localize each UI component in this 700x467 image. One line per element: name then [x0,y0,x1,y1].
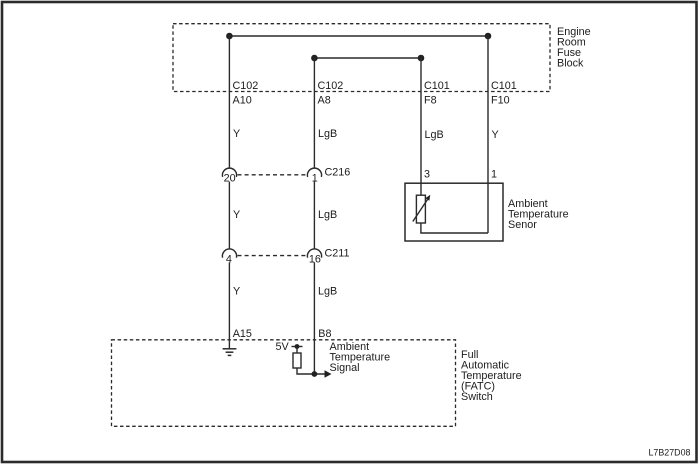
node junction dot right bus2 [418,55,425,62]
svg-text:Y: Y [233,286,240,298]
diagram code L7B27D08 [649,447,691,457]
connector C216 dashed link [238,174,308,176]
wire 1 lower segment [228,262,230,348]
svg-text:A15: A15 [233,328,252,340]
pin label 1 [491,169,497,181]
ground (A15) [223,349,237,356]
node junction dot right bus1 [485,33,492,40]
svg-text:C101: C101 [424,80,450,92]
wire 3 segment (C101 F8) [420,58,422,195]
pin number 16 [309,253,321,265]
svg-text:3: 3 [424,169,430,181]
signal arrow [325,370,332,377]
wire 5V to resistor [296,347,298,354]
label Ambient Temperature Senor [508,198,569,231]
wire color label LgB (wire3) [425,129,444,141]
svg-text:A10: A10 [233,95,252,107]
svg-text:C102: C102 [318,80,344,92]
svg-text:Signal: Signal [330,362,360,374]
wire 2 lower segment [313,262,315,374]
svg-text:Y: Y [233,209,240,221]
terminal label B8 [318,328,331,340]
svg-text:Y: Y [233,128,240,140]
wire bus1 (top horizontal) [229,35,488,37]
connector C211 right half (pin 16) [307,249,321,258]
svg-text:F10: F10 [491,95,510,107]
svg-text:L7B27D08: L7B27D08 [649,447,691,457]
resistor (pull-up) [293,353,301,368]
pin number 20 [224,173,236,185]
wire color label Y (wire1 lower) [233,286,240,298]
svg-text:Y: Y [492,129,499,141]
wire 4 segment (C101 F10) [487,36,489,233]
thermistor body [416,195,425,223]
5V supply terminal [292,344,303,349]
pin number 4 [226,253,232,265]
svg-text:1: 1 [491,169,497,181]
svg-text:C102: C102 [233,80,259,92]
pin number 1 [312,173,318,185]
connector label C101 F10 [491,80,517,107]
wire color label Y (wire1 middle) [233,209,240,221]
wire color label Y (wire4) [492,129,499,141]
connector label C102 A10 [233,80,259,107]
svg-text:B8: B8 [318,328,331,340]
svg-text:5V: 5V [276,341,290,353]
node junction dot left bus2 [311,55,318,62]
terminal label A15 [233,328,252,340]
label Engine Room Fuse Block [557,26,591,70]
wire resistor to junction [297,368,325,374]
pin label 3 [424,169,430,181]
label Ambient Temperature Signal [330,341,391,374]
svg-text:Block: Block [557,58,584,70]
wire bus2 (inner horizontal) [314,57,421,59]
wire thermistor to bottom [421,223,488,233]
connector label C102 A8 [318,80,344,107]
Ambient Temperature Senor box [405,183,503,241]
wire color label LgB (wire2 lower) [318,286,337,298]
svg-text:C101: C101 [491,80,517,92]
wire 1 middle segment [228,182,230,249]
thermistor arrow [413,195,431,222]
connector C211 left half (pin 4) [222,249,236,258]
label Full Automatic Temperature (FATC) Switch [461,349,522,403]
wire color label LgB (wire2 middle) [318,209,337,221]
connector label C101 F8 [424,80,450,107]
connector C211 dashed link [238,255,308,257]
wire color label LgB (wire2 upper) [318,128,337,140]
wire 2 middle segment [313,182,315,249]
connector C216 right half (pin 1) [307,168,321,177]
svg-text:LgB: LgB [318,209,337,221]
svg-text:C211: C211 [325,247,350,259]
wire color label Y (wire1 upper) [233,128,240,140]
svg-text:A8: A8 [318,95,331,107]
node junction dot left bus1 [226,33,233,40]
svg-text:C216: C216 [325,167,351,179]
svg-text:LgB: LgB [425,129,444,141]
Engine Room Fuse Block dashed box [173,24,550,92]
node junction dot B8 [312,371,318,377]
FATC switch dashed box [112,340,456,427]
svg-text:F8: F8 [424,95,437,107]
svg-text:Switch: Switch [461,391,493,403]
label 5V [276,341,290,353]
connector C216 left half (pin 20) [222,168,236,177]
svg-text:Senor: Senor [508,219,537,231]
svg-text:LgB: LgB [318,128,337,140]
svg-text:LgB: LgB [318,286,337,298]
connector label C216 [325,167,351,179]
wire 2 upper segment (C102 A8) [313,58,315,168]
wire 1 upper segment (C102 A10) [228,36,230,168]
connector label C211 [325,247,350,259]
